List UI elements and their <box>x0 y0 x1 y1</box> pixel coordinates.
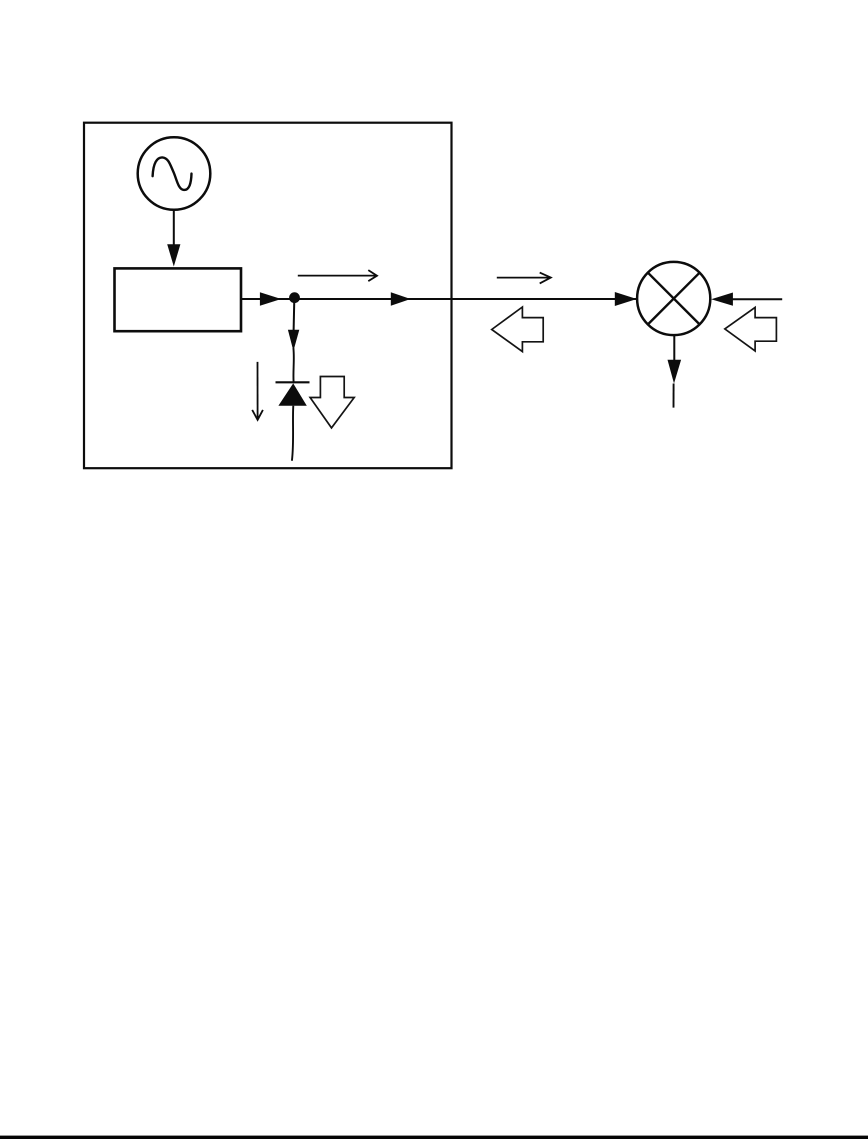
wire LO input from right <box>731 298 782 300</box>
arrowhead into block <box>167 244 180 266</box>
AC source sine symbol <box>153 157 192 190</box>
diode D1 cathode bar <box>276 381 310 383</box>
diode D1 triangle <box>278 383 306 405</box>
wire source to oscillator block <box>173 210 175 247</box>
wire junction down to diode <box>293 299 296 331</box>
big open block arrow down (power flow) <box>310 377 354 428</box>
arrowhead IF output <box>668 360 682 384</box>
footer rule <box>0 1136 868 1139</box>
big open block arrow left (LO side, right of mixer) <box>725 307 777 351</box>
wire IF output tail <box>673 384 675 408</box>
oscillator block U1 <box>115 268 242 331</box>
mixer X diagonal 1 <box>648 273 700 325</box>
wire block to mixer (main RF line) <box>241 298 636 300</box>
wire below diode <box>292 406 293 461</box>
thin flow arrow inside box <box>298 270 377 281</box>
outer dashed-free enclosure box <box>84 123 452 469</box>
thin flow arrow outside box <box>497 273 551 284</box>
thin current arrow beside diode <box>252 362 263 420</box>
arrowhead down toward diode <box>288 330 299 351</box>
big open block arrow left (reverse power, left of mixer) <box>492 307 544 352</box>
arrowhead C into mixer <box>615 292 637 306</box>
arrowhead A after block <box>260 292 281 306</box>
arrowhead D into mixer from right <box>711 293 733 306</box>
arrowhead B mid-line <box>391 292 411 305</box>
wire arrowhead to diode bar <box>292 348 294 382</box>
node junction dot <box>289 292 300 303</box>
mixer X diagonal 2 <box>648 273 700 325</box>
AC source V1 circle <box>138 137 211 210</box>
mixer U2 circle <box>637 262 710 335</box>
wire IF output below mixer <box>673 335 675 361</box>
